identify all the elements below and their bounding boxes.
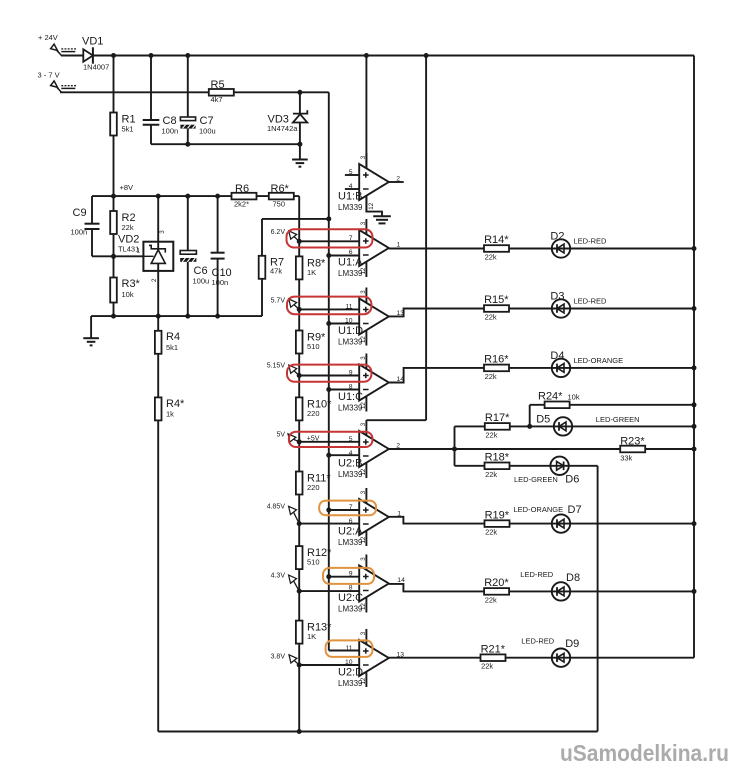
capacitor C10	[211, 253, 225, 259]
svg-text:LED-RED: LED-RED	[521, 637, 555, 646]
svg-text:LM339: LM339	[338, 470, 363, 479]
svg-text:R21*: R21*	[481, 643, 506, 655]
junction +24V rail / C7	[185, 53, 190, 58]
capacitor C6 electrolytic	[180, 251, 196, 262]
svg-text:LM339: LM339	[338, 203, 363, 212]
op-amp U1:D body	[359, 299, 389, 335]
test point arrow 4.3V	[289, 575, 300, 591]
wire C10 lower lead	[217, 259, 219, 317]
wire U2:C - input from 4.3V node	[299, 590, 359, 592]
svg-text:LED-ORANGE: LED-ORANGE	[574, 356, 624, 365]
svg-text:9: 9	[349, 571, 353, 578]
resistor R7	[259, 256, 266, 279]
junction U2:B out / R17-R18	[452, 447, 457, 452]
junction +8V rail / C10	[215, 194, 220, 199]
resistor R24*	[545, 402, 570, 409]
svg-text:D2: D2	[550, 231, 564, 243]
junction +8V rail / TL431	[156, 194, 161, 199]
svg-text:10: 10	[345, 318, 353, 325]
wire D5/R17 row	[455, 425, 695, 427]
red highlight U1:A + input	[287, 229, 373, 247]
svg-text:12: 12	[368, 202, 375, 209]
ground under VD3	[292, 160, 308, 167]
svg-text:3: 3	[360, 557, 367, 561]
resistor R3*	[110, 278, 117, 303]
U1:B pin 12 stub	[365, 196, 367, 211]
svg-text:8: 8	[349, 585, 353, 592]
wire R24 row	[530, 404, 694, 406]
svg-text:+8V: +8V	[120, 183, 134, 192]
svg-text:3: 3	[360, 631, 367, 635]
wire R4 column to bottom rail	[157, 316, 159, 731]
red highlight U2:B + input	[289, 432, 373, 447]
svg-text:10k: 10k	[122, 290, 134, 299]
wire R5 to input bus	[233, 91, 329, 93]
wire U1:A - input from bus	[329, 255, 359, 257]
connector + 24V input	[51, 44, 76, 55]
svg-text:510: 510	[307, 342, 320, 351]
svg-text:22k: 22k	[485, 595, 497, 604]
svg-text:13: 13	[397, 652, 405, 659]
wire VD3 lower lead	[299, 123, 301, 160]
node 5.7V on ladder	[297, 307, 302, 312]
U2:B pin 12 stub	[365, 463, 367, 478]
U2:D - input glyph	[363, 664, 369, 666]
orange highlight U2:C + input	[323, 568, 374, 584]
svg-text:4k7: 4k7	[211, 95, 223, 104]
resistor R23*	[620, 446, 645, 453]
svg-text:2: 2	[396, 443, 400, 450]
wire U1:A + input from 6.2V node	[299, 240, 359, 242]
wire bottom rail	[158, 731, 597, 733]
svg-text:22k: 22k	[485, 430, 497, 439]
wire VD3 branch upper	[299, 92, 301, 113]
connector 3 - 7 V input	[51, 81, 76, 92]
svg-text:5k1: 5k1	[166, 343, 178, 352]
svg-text:R3*: R3*	[122, 278, 141, 290]
junction LED bus / D2 row	[692, 246, 697, 251]
svg-text:33k: 33k	[620, 454, 632, 463]
svg-text:4: 4	[349, 183, 353, 190]
wire TL431 anode lead to ground rail	[157, 271, 159, 316]
svg-text:D9: D9	[565, 638, 579, 650]
svg-text:22k: 22k	[481, 662, 493, 671]
wire U2:A output with step	[389, 517, 694, 524]
U1:D + input glyph	[363, 307, 369, 313]
op-amp U1:C body	[359, 365, 389, 401]
LED D7	[552, 514, 570, 532]
svg-text:1: 1	[397, 242, 401, 249]
U2:C - input glyph	[363, 590, 369, 592]
resistor R5	[209, 89, 234, 96]
op-amp U1:B body	[359, 164, 389, 200]
junction ref row / R2-R3	[111, 254, 116, 259]
junction D5 row / R24 branch	[527, 424, 532, 429]
wire input bus vertical	[328, 92, 330, 650]
junction LED bus / D8 row	[692, 589, 697, 594]
orange highlight U2:A + input	[319, 501, 376, 516]
junction 3-7V / VD3	[297, 90, 302, 95]
svg-text:R5: R5	[211, 79, 225, 91]
wire 3-7V input to R5	[60, 91, 210, 93]
ground regulator rail	[90, 316, 92, 338]
svg-text:5.7V: 5.7V	[271, 297, 286, 304]
svg-text:4.85V: 4.85V	[267, 503, 286, 510]
test point arrow 6.2V	[289, 231, 299, 241]
resistor R21*	[481, 654, 506, 661]
svg-text:3.8V: 3.8V	[271, 653, 286, 660]
LED D8	[552, 582, 570, 600]
U2:B + input glyph	[363, 439, 369, 445]
svg-text:1: 1	[137, 248, 141, 255]
U1:C pin 12 stub	[365, 396, 367, 411]
LED D5	[554, 417, 572, 435]
wire U2:B + input from +5V node	[299, 441, 359, 443]
svg-text:220: 220	[307, 483, 320, 492]
svg-text:8: 8	[349, 384, 353, 391]
resistor R19*	[485, 520, 510, 527]
svg-text:U1:B: U1:B	[338, 191, 362, 203]
U2:C pin 3 stub	[365, 555, 367, 570]
junction +24V rail / R1	[111, 53, 116, 58]
svg-text:100u: 100u	[199, 127, 216, 136]
svg-text:R23*: R23*	[620, 436, 645, 448]
U2:C pin 12 stub	[365, 597, 367, 612]
svg-text:D8: D8	[566, 572, 580, 584]
U1:D - input glyph	[363, 323, 369, 325]
zener diode VD3	[293, 110, 307, 122]
op-amp U2:D body	[359, 640, 389, 676]
svg-text:750: 750	[273, 199, 286, 208]
svg-text:R15*: R15*	[484, 294, 509, 306]
ground under U1:B pin 12	[373, 216, 391, 223]
U1:C + input glyph	[363, 373, 369, 379]
svg-text:11: 11	[345, 645, 352, 652]
junction bus / U1:A -	[326, 253, 331, 258]
node 4.85V on ladder	[297, 521, 302, 526]
resistor R14*	[484, 245, 509, 252]
capacitor C9	[85, 224, 100, 229]
test point arrow 3.8V	[289, 655, 299, 665]
svg-text:4.3V: 4.3V	[271, 572, 286, 579]
U2:A + input glyph	[363, 507, 369, 513]
U1:A pin 3 stub	[365, 219, 367, 234]
resistor R18*	[485, 463, 510, 470]
wire U1:D - input from bus	[329, 323, 359, 325]
wire U1:B - input stub	[345, 188, 359, 190]
svg-text:510: 510	[307, 558, 320, 567]
junction ground rail / C6	[185, 314, 190, 319]
svg-text:LED-GREEN: LED-GREEN	[514, 475, 558, 484]
svg-text:22k: 22k	[485, 528, 497, 537]
svg-text:6: 6	[349, 249, 353, 256]
node 6.2V on ladder	[297, 239, 302, 244]
U1:B pin 3 stub	[365, 153, 367, 168]
svg-text:R19*: R19*	[485, 509, 510, 521]
svg-text:14: 14	[397, 376, 405, 383]
resistor R15*	[484, 305, 509, 312]
wire R1-R2-R3 column	[113, 56, 115, 317]
resistor R8*	[296, 256, 303, 279]
U2:D pin 3 stub	[365, 629, 367, 644]
svg-text:7: 7	[349, 504, 353, 511]
svg-text:9: 9	[349, 370, 353, 377]
U2:D + input glyph	[363, 648, 369, 654]
svg-text:D3: D3	[550, 291, 564, 303]
svg-text:R4*: R4*	[166, 398, 185, 410]
svg-text:22k: 22k	[485, 470, 497, 479]
svg-text:1K: 1K	[307, 268, 316, 277]
svg-text:5V: 5V	[276, 432, 285, 439]
svg-text:2k2*: 2k2*	[234, 199, 249, 208]
svg-text:LED-GREEN: LED-GREEN	[596, 415, 640, 424]
svg-text:R16*: R16*	[484, 354, 509, 366]
node 4.3V on ladder	[297, 589, 302, 594]
svg-text:1K: 1K	[307, 632, 316, 641]
svg-text:R4: R4	[166, 331, 180, 343]
wire C9 lower lead	[91, 229, 93, 256]
svg-text:13: 13	[397, 310, 405, 317]
junction ladder / bottom rail	[297, 729, 302, 734]
junction LED bus / R23 row	[692, 447, 697, 452]
svg-text:LED-RED: LED-RED	[520, 570, 554, 579]
svg-text:LED-ORANGE: LED-ORANGE	[514, 505, 564, 514]
resistor R6	[232, 193, 257, 200]
resistor R16*	[484, 365, 509, 372]
wire R7 top to bus	[262, 218, 329, 220]
svg-text:LM339: LM339	[338, 404, 363, 413]
svg-text:R18*: R18*	[485, 452, 510, 464]
wire U1:D output with step	[389, 309, 694, 317]
svg-text:LM339: LM339	[338, 605, 363, 614]
svg-text:10k: 10k	[568, 393, 580, 402]
wire U2 supply bus vertical from +24V rail	[425, 56, 427, 421]
svg-text:5.15V: 5.15V	[267, 363, 286, 370]
wire +24V rail input segment	[61, 55, 83, 57]
U1:D pin 3 stub	[365, 288, 367, 303]
svg-text:2: 2	[396, 176, 400, 183]
svg-text:5k1: 5k1	[122, 125, 134, 134]
svg-text:3: 3	[360, 490, 367, 494]
svg-text:U1:D: U1:D	[338, 325, 363, 337]
svg-text:R14*: R14*	[484, 234, 509, 246]
U2:A - input glyph	[363, 523, 369, 525]
wire regulator ground rail	[91, 315, 262, 317]
svg-text:4: 4	[349, 450, 353, 457]
svg-text:C8: C8	[163, 115, 177, 127]
junction +24V rail / U1 pin3	[364, 53, 369, 58]
test point arrow 5V	[288, 434, 299, 442]
wire C9 branch	[91, 196, 93, 224]
svg-text:U2:A: U2:A	[338, 526, 363, 538]
svg-text:LED-RED: LED-RED	[574, 237, 608, 246]
svg-text:3: 3	[159, 230, 166, 234]
svg-text:3: 3	[360, 290, 367, 294]
wire right LED bus	[693, 56, 695, 658]
svg-text:R20*: R20*	[484, 577, 509, 589]
op-amp U2:A body	[359, 499, 389, 535]
junction LED bus / D4 row	[692, 365, 697, 370]
LED D3	[552, 299, 570, 317]
junction LED bus / D7 row	[692, 521, 697, 526]
junction ground rail / C10	[215, 314, 220, 319]
node +5V on ladder	[297, 439, 302, 444]
junction R7 row / input bus	[326, 216, 331, 221]
U1:A - input glyph	[363, 254, 369, 256]
wire C6 branch	[187, 196, 189, 250]
svg-text:U2:C: U2:C	[338, 592, 363, 604]
svg-text:LM339: LM339	[338, 338, 363, 347]
svg-text:R17*: R17*	[485, 412, 510, 424]
wire U2:B - input from bus	[329, 454, 359, 456]
svg-text:D7: D7	[568, 504, 582, 516]
svg-text:1: 1	[397, 511, 401, 518]
resistor R9*	[296, 331, 303, 354]
svg-text:D6: D6	[565, 474, 579, 486]
svg-text:10: 10	[345, 659, 353, 666]
wire TL431 ref row	[92, 255, 145, 257]
junction +8V rail / C6	[185, 194, 190, 199]
U2:C + input glyph	[363, 574, 369, 580]
LED D4	[552, 359, 570, 377]
wire C8 lower lead	[150, 125, 152, 145]
test point arrow 4.85V	[289, 506, 300, 523]
resistor R11*	[296, 472, 303, 495]
svg-text:6.2V: 6.2V	[271, 229, 286, 236]
junction bus / U1:D -	[326, 321, 331, 326]
capacitor C8	[143, 120, 160, 125]
svg-text:5: 5	[349, 436, 353, 443]
test point arrow 5.7V	[289, 299, 299, 309]
svg-text:D5: D5	[536, 414, 550, 426]
svg-text:C6: C6	[194, 265, 208, 277]
wire C6 lower lead	[187, 262, 189, 316]
wire R18/D6 row	[455, 465, 598, 467]
resistor R20*	[484, 588, 509, 595]
U1:B - input glyph	[363, 188, 369, 190]
wire U1:C - input from bus	[329, 389, 359, 391]
svg-text:3 - 7 V: 3 - 7 V	[38, 71, 60, 80]
wire D6 return vertical to bottom rail	[597, 466, 599, 732]
svg-text:LM339: LM339	[338, 679, 363, 688]
wire U2:D + input from bus corner	[329, 650, 359, 652]
wire C8/C7 ground rail	[151, 143, 300, 145]
resistor R12*	[296, 546, 303, 569]
node 3.8V on ladder	[297, 663, 302, 668]
svg-text:uSamodelkina.ru: uSamodelkina.ru	[560, 740, 729, 766]
svg-text:LM339: LM339	[338, 269, 363, 278]
LED D6	[550, 457, 568, 475]
svg-text:220: 220	[307, 409, 320, 418]
wire R7 column	[261, 219, 263, 316]
svg-text:R24*: R24*	[538, 391, 563, 403]
junction bus / U2:B -	[326, 453, 331, 458]
svg-text:47k: 47k	[270, 267, 282, 276]
orange highlight U2:D + input	[326, 640, 373, 657]
svg-text:3: 3	[360, 155, 367, 159]
resistor R6*	[269, 193, 294, 200]
svg-text:22k: 22k	[122, 223, 134, 232]
U1:D pin 12 stub	[365, 330, 367, 345]
test point arrow 5.15V	[289, 365, 299, 375]
svg-text:100n: 100n	[162, 127, 179, 136]
junction ground rail / TL431-R4	[156, 314, 161, 319]
resistor R2	[110, 211, 117, 234]
svg-text:5: 5	[349, 169, 353, 176]
junction bus / U2:A +	[326, 508, 331, 513]
wire U2:B output to R17/R18 junction	[389, 448, 455, 450]
op-amp U2:C body	[359, 566, 389, 602]
resistor R1	[110, 113, 117, 136]
wire U2 supply pin 3 row	[366, 419, 426, 421]
resistor R4*	[155, 397, 162, 420]
U2:B - input glyph	[363, 455, 369, 457]
diode VD1	[83, 47, 93, 63]
wire R24 branch vertical	[529, 405, 531, 427]
wire C7 lower lead	[187, 128, 189, 144]
node 5.15V on ladder	[297, 373, 302, 378]
svg-text:C9: C9	[73, 207, 87, 219]
svg-text:U2:D: U2:D	[338, 667, 363, 679]
junction ground rail / R3	[111, 314, 116, 319]
junction LED bus / R24 row	[692, 402, 697, 407]
U2:A pin 12 stub	[365, 531, 367, 546]
junction +24V rail / U2 supply bus	[424, 53, 429, 58]
U1:B + input glyph	[363, 172, 369, 178]
resistor R13*	[296, 621, 303, 644]
wire reference ladder vertical	[298, 196, 300, 731]
svg-text:U1:C: U1:C	[338, 391, 363, 403]
svg-text:C7: C7	[200, 115, 214, 127]
wire +24V rail	[93, 55, 694, 57]
svg-text:VD1: VD1	[82, 36, 103, 48]
svg-text:11: 11	[345, 304, 352, 311]
junction bus / U2:C +	[326, 574, 331, 579]
junction C7 / ground rail	[185, 142, 190, 147]
wire C10 branch	[217, 196, 219, 253]
resistor R10*	[296, 397, 303, 420]
junction LED bus / D3 row	[692, 306, 697, 311]
wire U1:B + input stub	[345, 174, 359, 176]
wire U1:B output stub pin 2	[389, 181, 404, 183]
svg-text:LED-RED: LED-RED	[574, 297, 608, 306]
U1:C pin 3 stub	[365, 354, 367, 369]
wire U2:C + input from bus	[329, 576, 359, 578]
svg-text:+ 24V: + 24V	[38, 33, 58, 42]
wire U1:B pin12 to ground	[366, 195, 382, 216]
junction LED bus / D5 row	[692, 424, 697, 429]
wire +8V rail	[92, 195, 299, 197]
wire U1:C + input from 5.15V node	[299, 375, 359, 377]
LED D2	[552, 239, 570, 257]
U1:C - input glyph	[363, 389, 369, 391]
wire C8 branch	[150, 56, 152, 121]
capacitor C7 electrolytic	[180, 117, 195, 129]
wire R17/R18 junction vertical	[454, 426, 456, 465]
wire U1:A output row to LED bus	[389, 248, 694, 250]
svg-text:U2:B: U2:B	[338, 458, 362, 470]
red highlight U1:D + input	[287, 297, 371, 315]
op-amp U2:B body	[359, 431, 389, 467]
resistor R17*	[485, 423, 510, 430]
svg-text:D4: D4	[550, 350, 564, 362]
svg-text:R6*: R6*	[271, 183, 290, 195]
resistor R4	[155, 331, 162, 354]
svg-text:100u: 100u	[193, 277, 210, 286]
shunt regulator VD2 TL431	[143, 242, 173, 271]
LED D9	[552, 649, 570, 667]
svg-text:7: 7	[349, 235, 353, 242]
